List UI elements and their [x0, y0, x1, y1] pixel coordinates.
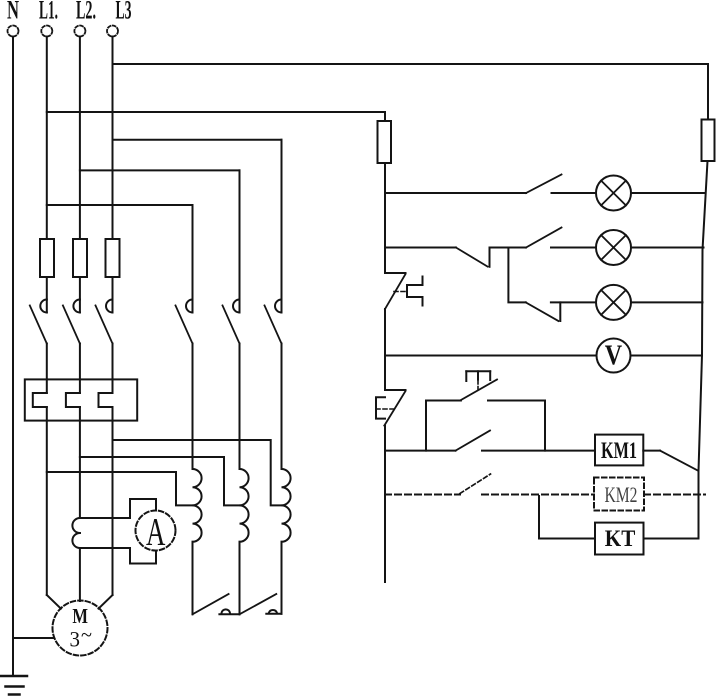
star contact fixed stub 1: [219, 609, 239, 614]
wire KM2 pole2 feed: [239, 170, 241, 312]
thermal relay FR box: [25, 379, 137, 420]
autotransformer coil 2: [240, 469, 249, 542]
wire L1 to KM2 pole1: [47, 204, 193, 206]
wire lamp2 to right rail: [631, 247, 704, 249]
motor M: [53, 601, 108, 656]
svg-text:V: V: [605, 339, 623, 371]
svg-text:A: A: [146, 511, 165, 554]
wire pole2 to motor: [79, 548, 81, 601]
wire L3 vertical: [112, 37, 114, 240]
wire N vertical: [12, 37, 14, 677]
wire row2 drop to row3: [508, 248, 525, 303]
wire right rail: [699, 161, 708, 539]
switch SA2a fixed hook: [489, 248, 491, 267]
svg-text:KT: KT: [605, 526, 636, 551]
node N label: [7, 0, 19, 25]
lamp HL2: [596, 230, 631, 265]
FR heater element 3: [99, 393, 113, 407]
wire pole3 below FR: [112, 407, 114, 595]
contactor KM1 main contact pole2: [63, 300, 80, 344]
wire L1 to control left rail: [47, 111, 385, 113]
wire FU3 to KM1 contact: [112, 277, 114, 313]
dashed contact blade: [460, 474, 491, 494]
contactor KM1 main contact pole1: [30, 300, 47, 344]
dashed row wire right: [644, 494, 705, 496]
wire KT left: [539, 538, 595, 540]
wire row1 left: [385, 192, 526, 194]
wire lamp3 to right rail: [631, 301, 703, 303]
pushbutton SB2: [376, 390, 406, 426]
switch SA3 blade: [526, 302, 559, 321]
lamp HL1: [596, 176, 631, 211]
svg-text:3: 3: [70, 627, 81, 652]
voltmeter PV: [597, 339, 631, 373]
terminal N: [8, 26, 19, 37]
coil KM1: [595, 435, 643, 466]
ammeter PA: [136, 511, 176, 554]
svg-text:KM2: KM2: [605, 482, 638, 507]
terminal L1: [41, 26, 52, 37]
FR heater element 2: [66, 393, 80, 407]
contact KM1 aux blade: [456, 431, 491, 451]
contactor KM2 contact pole1: [176, 300, 193, 344]
wire CT to ammeter bottom: [80, 548, 156, 564]
lamp HL3: [596, 285, 631, 320]
wire right rail top: [707, 64, 709, 120]
wire V to right rail: [631, 355, 703, 357]
wire pole2 below FR: [79, 407, 81, 518]
wire left rail SB1 to SB2: [384, 309, 386, 390]
node L2 label: [76, 0, 96, 25]
wire L3 to right rail top: [113, 63, 709, 65]
wire row2 to lamp2: [551, 247, 596, 249]
wire pole1 below FR: [46, 407, 48, 595]
wire KM2 pole2 to coil2: [239, 344, 241, 470]
wire KM1 to diagonal: [643, 450, 660, 452]
dashed row wire left: [385, 494, 460, 496]
svg-text:N: N: [7, 0, 19, 25]
wire pole2 to FR: [79, 344, 81, 394]
switch SA2a blade: [456, 248, 488, 267]
wire left rail upper: [384, 112, 386, 121]
fuse FU2: [73, 239, 87, 277]
wire KM1 row mid: [482, 450, 595, 452]
wire KT right to rail: [644, 538, 699, 540]
autotransformer coil 1: [193, 469, 202, 542]
wire row2 left: [385, 247, 456, 249]
wire V row left: [385, 355, 597, 357]
contactor KM2 contact pole2: [223, 300, 240, 344]
parallel branch left side: [425, 401, 427, 451]
wire FU1 to KM1 contact: [46, 277, 48, 313]
coil KT: [595, 523, 644, 555]
switch blade after KM1: [660, 451, 698, 471]
wire pole2 tap to coil2 mid: [80, 457, 240, 505]
fuse FU4 control left: [378, 121, 392, 163]
svg-text:L3: L3: [116, 0, 132, 25]
fuse FU3: [106, 239, 120, 277]
node L3 label: [116, 0, 132, 25]
svg-text:L2.: L2.: [76, 0, 96, 25]
fuse FU1: [40, 239, 54, 277]
wire KM2 pole1 to coil1: [192, 344, 194, 470]
pushbutton SB3 start: [461, 371, 497, 400]
wire left rail lower: [384, 426, 386, 582]
wire N to motor: [13, 637, 54, 639]
wire L1 vertical: [46, 37, 48, 240]
wire FU2 to KM1 contact: [79, 277, 81, 313]
wire KT up to dashed row: [538, 496, 540, 539]
wire coil3 bottom: [281, 542, 283, 614]
wire KM1 row left: [385, 450, 456, 452]
wire KM2 pole3 to coil3: [281, 344, 283, 470]
FR heater element 1: [33, 393, 47, 407]
pushbutton SB1 stop: [385, 273, 423, 309]
terminal L2: [74, 26, 85, 37]
node L1 label: [39, 0, 58, 25]
wire left rail fuse to SB1: [384, 163, 386, 273]
wire branch top right: [488, 400, 545, 402]
wire L2 vertical: [79, 37, 81, 240]
wire coil2 bottom: [239, 542, 241, 615]
wire branch top left: [426, 400, 461, 402]
wire coil1 bottom: [192, 542, 194, 615]
wire pole1 to FR: [46, 344, 48, 394]
wire pole3 into motor: [99, 595, 113, 609]
wire pole3 tap to coil3 mid: [113, 440, 282, 505]
contactor KM1 main contact pole3: [96, 300, 113, 344]
wire row3 to lamp3: [551, 301, 596, 303]
wire lamp1 to right rail: [631, 192, 704, 194]
switch SA2b blade: [526, 228, 562, 248]
wire row1 to lamp1: [552, 192, 597, 194]
wire L3 to KM2 pole3: [113, 139, 282, 141]
ground: [0, 676, 27, 695]
switch SA1 blade: [526, 175, 562, 194]
parallel branch right side: [544, 401, 546, 451]
wire pole1 into motor: [47, 595, 61, 609]
wire KM2 pole3 feed: [281, 140, 283, 313]
terminal L3: [107, 26, 118, 37]
contactor KM2 contact pole3: [265, 300, 282, 344]
svg-text:L1.: L1.: [39, 0, 58, 25]
star contact blade 2: [240, 594, 277, 614]
switch SA3 fixed hook: [559, 302, 561, 321]
star contact blade 1: [193, 594, 229, 614]
wire pole1 tap to coil1 mid: [47, 472, 193, 505]
wire row2 bar: [490, 247, 527, 249]
fuse FU5 control right: [702, 120, 715, 162]
svg-text:KM1: KM1: [601, 438, 637, 463]
wire KM2 pole1 feed: [192, 205, 194, 313]
wire CT to ammeter top: [80, 499, 156, 518]
current transformer TA winding: [72, 518, 80, 548]
wire L2 to KM2 pole2: [80, 169, 240, 171]
coil KM2 dashed: [594, 478, 644, 511]
wire pole3 to FR: [112, 344, 114, 394]
star contact fixed stub 2: [266, 610, 281, 614]
dashed row wire mid: [482, 494, 594, 496]
svg-text:~: ~: [81, 622, 92, 647]
autotransformer coil 3: [282, 469, 291, 542]
